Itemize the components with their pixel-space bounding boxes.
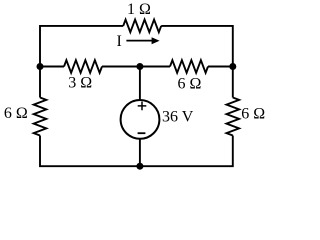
svg-text:36 V: 36 V — [162, 109, 194, 126]
resistor 6 ohm (left vertical) — [34, 98, 47, 136]
wire source-bottom: voltage source down to bottom rail — [139, 139, 141, 167]
wire source-top: middle node down to voltage source — [139, 67, 141, 101]
resistor 6 ohm (right vertical) — [227, 98, 240, 136]
junction dot middle node — [136, 63, 143, 70]
junction dot bottom node — [136, 163, 143, 170]
svg-text:1 Ω: 1 Ω — [127, 1, 151, 18]
current arrow I — [126, 40, 153, 42]
voltage source V1 36V circle — [121, 100, 160, 139]
resistor 1 ohm (top) — [123, 20, 161, 33]
junction dot left node — [37, 63, 44, 70]
voltage source minus sign — [138, 132, 146, 134]
svg-text:6 Ω: 6 Ω — [241, 106, 265, 123]
svg-text:3 Ω: 3 Ω — [68, 74, 92, 91]
svg-text:6 Ω: 6 Ω — [178, 75, 202, 92]
resistor 3 ohm (middle left) — [64, 60, 102, 73]
resistor 6 ohm (middle right) — [170, 60, 208, 73]
junction dot right node — [229, 63, 236, 70]
wire top-right: from resistor 1ohm to top-right corner down to middle — [161, 26, 233, 98]
svg-text:6 Ω: 6 Ω — [4, 105, 28, 122]
wire middle-right: resistor 6ohm to right node — [208, 66, 233, 68]
wire middle-left: left node to resistor 3ohm — [40, 66, 64, 68]
wire top-left: from top-left corner to resistor 1ohm — [40, 26, 123, 98]
wire bottom: bottom-left riser, bottom rail, bottom-right riser — [40, 136, 233, 167]
wire middle-center: resistor 3ohm to resistor 6ohm middle — [102, 66, 170, 68]
voltage source plus sign — [138, 102, 147, 111]
svg-text:I: I — [117, 33, 122, 50]
